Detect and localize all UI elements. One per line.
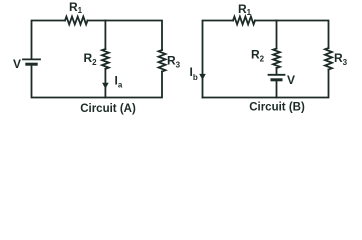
resistor R1 (circuit A) bbox=[65, 17, 88, 25]
current arrow Ia (circuit A) bbox=[102, 83, 109, 89]
battery V (circuit A) long plate bbox=[23, 58, 40, 60]
svg-text:Circuit (A): Circuit (A) bbox=[80, 103, 136, 115]
wire: circuit B middle branch upper bbox=[276, 21, 278, 49]
svg-text:R3: R3 bbox=[167, 54, 181, 70]
resistor R2 (circuit A) bbox=[102, 49, 109, 69]
svg-text:V: V bbox=[287, 73, 295, 87]
resistor R1 (circuit B) bbox=[233, 17, 255, 25]
wire: circuit B middle wire to battery bbox=[276, 68, 278, 74]
svg-text:R3: R3 bbox=[334, 51, 348, 67]
wire: circuit A middle branch lower bbox=[104, 69, 106, 98]
current arrow Ib (circuit B) bbox=[199, 74, 206, 80]
svg-text:R1: R1 bbox=[69, 0, 83, 15]
resistor R3 (circuit A) bbox=[159, 50, 166, 72]
wire: circuit B right-bottom segment bbox=[203, 70, 329, 98]
svg-text:Circuit (B): Circuit (B) bbox=[249, 102, 305, 114]
wire: circuit A top-left segment bbox=[32, 21, 66, 59]
resistor R3 (circuit B) bbox=[325, 48, 332, 70]
wire: circuit B top-right segment bbox=[255, 21, 329, 49]
svg-text:V: V bbox=[13, 57, 21, 71]
wire: circuit B top-left segment bbox=[203, 21, 234, 98]
battery V (circuit A) short plate bbox=[27, 63, 36, 66]
resistor R2 (circuit B) bbox=[273, 49, 280, 69]
battery V (circuit B) short plate bbox=[272, 78, 281, 81]
svg-text:R2: R2 bbox=[251, 48, 265, 64]
battery V (circuit B) long plate bbox=[269, 74, 285, 76]
svg-text:R1: R1 bbox=[238, 2, 252, 17]
svg-text:R2: R2 bbox=[84, 51, 98, 67]
wire: circuit A right-bottom segment bbox=[32, 65, 163, 97]
wire: circuit B middle branch lower bbox=[276, 81, 278, 98]
svg-text:Ib: Ib bbox=[190, 65, 198, 82]
wire: circuit A top-right segment bbox=[88, 21, 163, 51]
svg-text:Ia: Ia bbox=[115, 74, 123, 90]
wire: circuit A middle branch upper bbox=[104, 21, 106, 50]
